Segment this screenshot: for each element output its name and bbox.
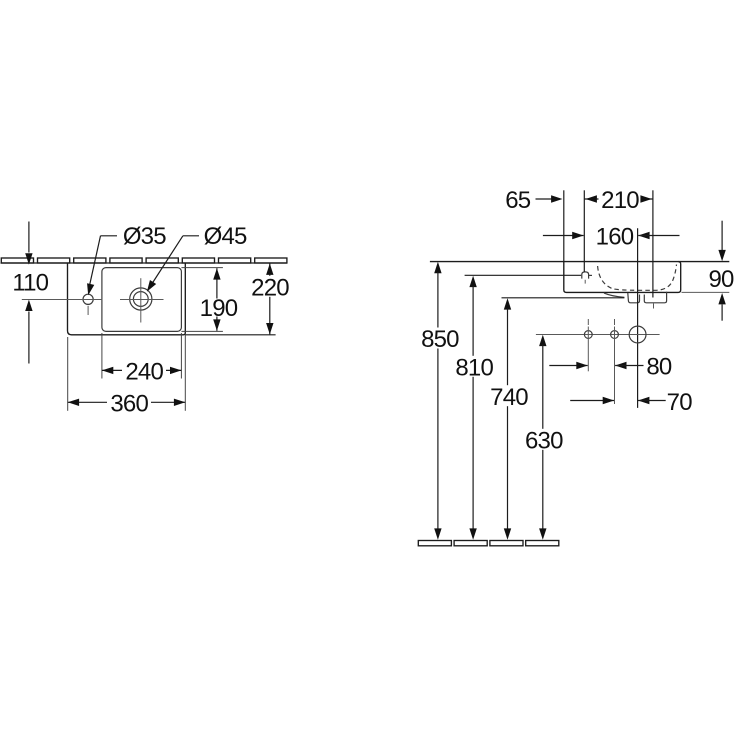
svg-text:240: 240 xyxy=(125,359,163,386)
outlet right tab xyxy=(644,292,666,303)
hole left centerline ticks xyxy=(587,319,589,325)
240 extension lines xyxy=(101,333,103,379)
drain hole horizontal centerline xyxy=(120,299,164,301)
svg-text:630: 630 xyxy=(525,427,563,454)
dimension 850 xyxy=(419,262,461,540)
faucet hole (front) xyxy=(582,272,589,279)
extension line drain axis (160/70 ref) xyxy=(637,228,639,408)
mounting holes centerline xyxy=(536,334,660,336)
svg-text:850: 850 xyxy=(421,326,459,353)
leader Ø45 xyxy=(144,223,247,294)
dimension 360 xyxy=(68,391,186,418)
360 extension lines xyxy=(67,337,69,411)
extension line faucet axis (65/210/160 ref) xyxy=(583,190,585,272)
svg-text:740: 740 xyxy=(490,384,528,411)
drain hole vertical centerline xyxy=(140,278,142,322)
110 reference centerline xyxy=(22,299,103,301)
hidden bowl outline (dashed) xyxy=(598,265,677,291)
dimension 630 xyxy=(524,335,566,540)
dimension 810 xyxy=(454,276,496,540)
svg-text:360: 360 xyxy=(110,391,148,418)
leader Ø35 xyxy=(85,223,167,296)
basin body (front) xyxy=(564,262,681,293)
extension line left edge (65 ref) xyxy=(563,190,565,261)
svg-text:210: 210 xyxy=(601,187,639,214)
svg-text:80: 80 xyxy=(646,354,672,381)
dimension 65 xyxy=(505,187,562,214)
faucet hole centerline dash xyxy=(584,280,586,284)
svg-text:70: 70 xyxy=(667,389,693,416)
dimension 240 xyxy=(102,359,181,386)
tap hole Ø35 xyxy=(83,294,93,304)
svg-text:Ø45: Ø45 xyxy=(204,223,247,250)
810 reference line xyxy=(465,274,582,276)
drain hole Ø45 inner xyxy=(133,292,148,307)
dimension 220 xyxy=(251,264,290,335)
dimension 80 xyxy=(549,354,672,381)
svg-text:810: 810 xyxy=(455,354,493,381)
inner bowl (plan) xyxy=(102,268,181,332)
basin bottom edge extension (90 ref) xyxy=(682,291,730,293)
outlet left tab xyxy=(628,293,640,303)
svg-text:65: 65 xyxy=(505,187,531,214)
top reference line (basin top / wall) xyxy=(430,261,729,263)
drain outlet hole xyxy=(629,326,646,343)
wall tiles row (plan view) xyxy=(1,258,287,263)
bowl bottom edge extension (190 ref) xyxy=(181,330,223,332)
basin outline (plan) xyxy=(68,263,186,335)
mounting hole mid xyxy=(611,331,619,339)
bowl top edge extension (190 ref) xyxy=(181,267,223,269)
svg-text:160: 160 xyxy=(596,224,634,251)
svg-text:Ø35: Ø35 xyxy=(123,223,166,250)
dimension 110 xyxy=(12,222,48,364)
dimension 190 xyxy=(200,268,238,331)
tap hole vertical centerline xyxy=(87,306,89,315)
svg-text:90: 90 xyxy=(708,266,734,293)
svg-text:220: 220 xyxy=(251,275,289,302)
dimension 740 xyxy=(488,298,530,540)
dimension 70 xyxy=(570,389,692,416)
740 reference line xyxy=(502,297,625,299)
svg-text:110: 110 xyxy=(12,269,48,296)
dimension 210 xyxy=(584,187,653,214)
basin bottom edge extension (to 220 dim) xyxy=(185,334,275,336)
outlet centerline dash xyxy=(653,304,655,309)
dimension 90 xyxy=(708,221,734,321)
wall line (plan view) xyxy=(1,262,288,264)
floor tiles xyxy=(418,541,559,546)
bowl underside lip xyxy=(604,293,624,297)
svg-text:190: 190 xyxy=(200,295,238,322)
extension line 210 right ref xyxy=(652,190,654,297)
drain hole Ø45 outer xyxy=(130,288,152,310)
dimension 160 xyxy=(543,224,680,251)
hole mid centerline ticks xyxy=(614,319,616,325)
mounting hole left xyxy=(584,331,592,339)
